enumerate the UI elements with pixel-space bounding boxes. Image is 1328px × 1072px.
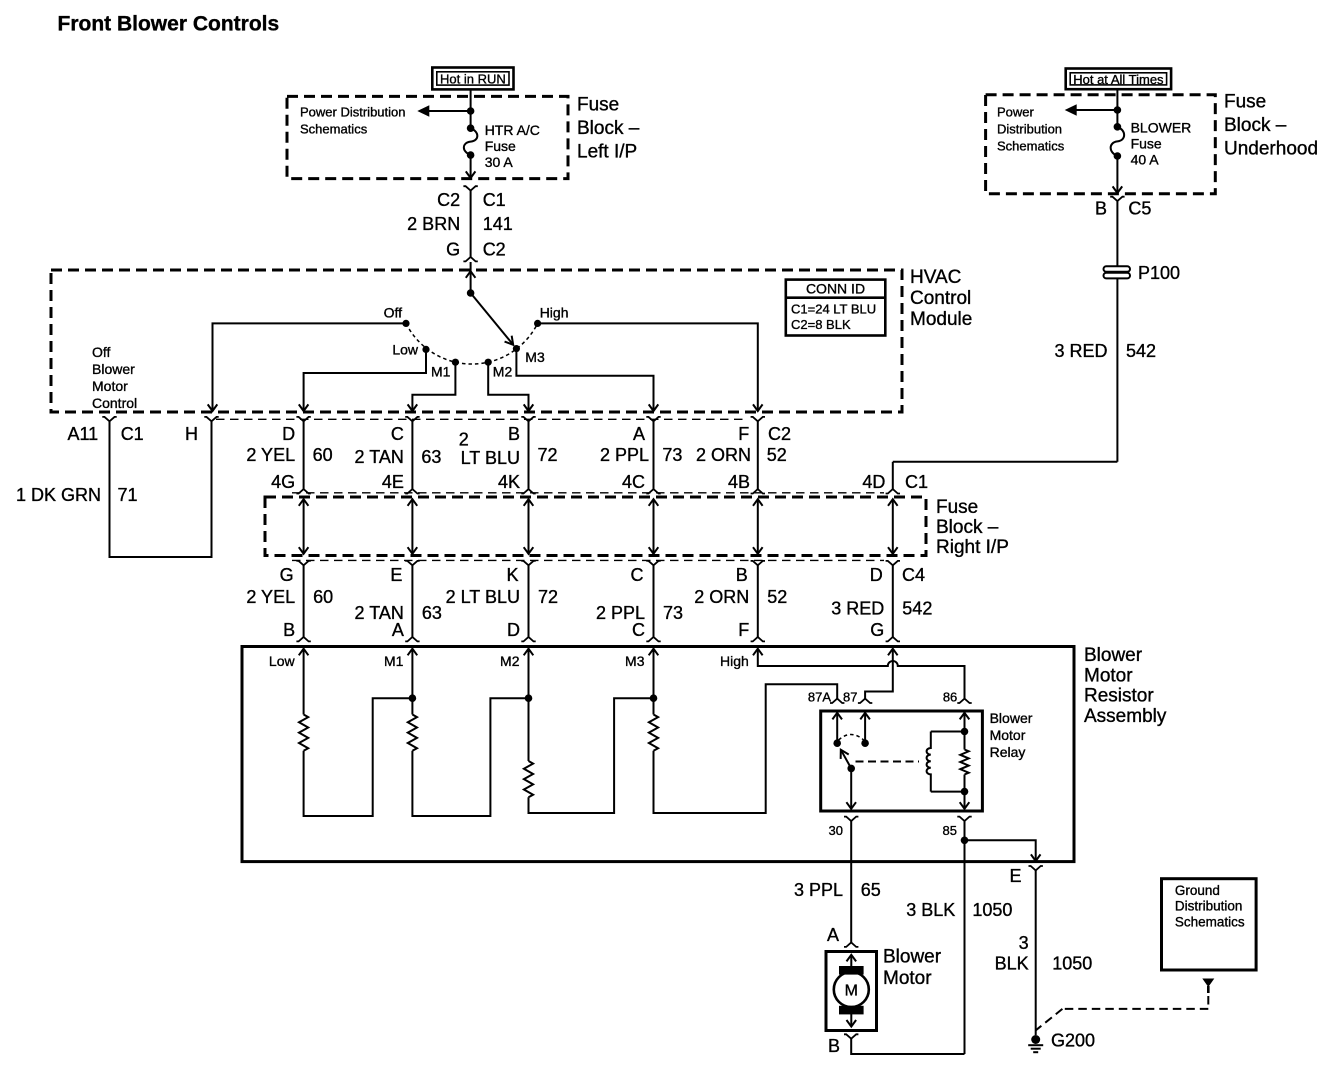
wire M1 resistor to M2 junction <box>412 698 527 816</box>
svg-text:C5: C5 <box>1128 199 1151 219</box>
pin G/C4 wire 2 YEL 60 to pin B of resistor assembly <box>246 561 333 642</box>
svg-text:C4: C4 <box>902 565 925 585</box>
wire M3 leg <box>653 649 655 715</box>
fuse block feed-through wire <box>753 499 763 554</box>
assembly pin entry arrow M1 <box>384 649 417 669</box>
relay switch blade with arrow <box>841 750 855 773</box>
wire 2 PPL 73 (A to 4C) <box>600 421 682 493</box>
assembly pin entry arrow Low <box>269 649 308 669</box>
pin B of HVAC <box>508 417 536 444</box>
node M3 junction <box>650 694 658 702</box>
svg-text:Left I/P: Left I/P <box>577 142 637 163</box>
svg-text:4D: 4D <box>862 472 885 492</box>
dashed reference wire to G200 <box>1036 996 1208 1030</box>
svg-text:C2: C2 <box>483 240 506 260</box>
fuse block feed-through wire <box>649 499 659 554</box>
arrow to Power Distribution Schematics (right) <box>1065 104 1118 115</box>
svg-text:Distribution: Distribution <box>1175 899 1243 914</box>
node: switch common <box>467 289 475 297</box>
svg-text:65: 65 <box>861 880 881 900</box>
label Fuse Block - Underhood <box>1224 92 1318 160</box>
svg-text:M2: M2 <box>493 364 513 380</box>
svg-text:Block –: Block – <box>936 517 999 538</box>
relay pin 30 <box>829 817 859 838</box>
svg-text:HVAC: HVAC <box>910 267 961 288</box>
svg-text:Low: Low <box>392 342 419 358</box>
switch position labels <box>384 305 569 380</box>
connector pin B / C5 <box>1095 197 1151 219</box>
svg-text:H: H <box>185 424 198 444</box>
svg-text:87: 87 <box>843 690 857 705</box>
node M2 junction <box>525 694 533 702</box>
ground distribution schematics box <box>1162 879 1257 970</box>
relay pin 87A <box>808 690 845 705</box>
svg-text:86: 86 <box>943 690 957 705</box>
svg-text:1050: 1050 <box>972 900 1012 920</box>
flag Hot at All Times <box>1066 69 1171 90</box>
svg-text:Hot at All Times: Hot at All Times <box>1073 72 1164 87</box>
svg-text:Relay: Relay <box>990 744 1026 760</box>
svg-text:542: 542 <box>902 599 932 619</box>
svg-text:C1: C1 <box>121 424 144 444</box>
pin C of HVAC <box>391 417 420 444</box>
svg-text:Block –: Block – <box>577 118 640 139</box>
svg-text:40 A: 40 A <box>1131 152 1160 168</box>
svg-text:F: F <box>738 620 749 640</box>
pin A of blower motor <box>827 925 858 947</box>
svg-text:Assembly: Assembly <box>1084 706 1167 727</box>
relay contact 87A arm <box>832 713 842 747</box>
label Power Distribution Schematics (right) <box>997 105 1065 154</box>
wire 3 PPL 65 relay 30 to blower motor A <box>794 821 881 943</box>
svg-text:M1: M1 <box>431 364 451 380</box>
pin D of HVAC <box>282 417 311 444</box>
switch contact arc (dashed) <box>406 323 538 364</box>
svg-text:C2=8 BLK: C2=8 BLK <box>791 317 851 332</box>
pin D/C4 wire 3 RED 542 to pin G of resistor assembly <box>831 561 932 642</box>
wire 2 TAN 63 (C to 4E) <box>355 421 442 493</box>
svg-text:2 BRN: 2 BRN <box>407 214 460 234</box>
svg-text:BLOWER: BLOWER <box>1131 120 1192 136</box>
pin K/C4 wire 2 LT BLU 72 to pin D of resistor assembly <box>446 561 558 642</box>
svg-text:63: 63 <box>421 447 441 467</box>
pin A of HVAC <box>633 417 661 444</box>
label Blower Motor <box>883 947 942 989</box>
relay pin 85 <box>943 817 972 838</box>
wire Off contact to pin H <box>208 323 406 411</box>
fuse BLOWER 40 A <box>1111 120 1192 168</box>
wire G feed to relay pin 87 <box>865 649 893 699</box>
pin E of assembly <box>1009 866 1042 886</box>
resistor M1 (assembly R2) <box>408 715 417 751</box>
wire M3 contact to pin A <box>516 349 658 411</box>
svg-text:C1=24 LT BLU: C1=24 LT BLU <box>791 302 876 317</box>
label Blower Motor Resistor Assembly <box>1084 645 1167 727</box>
svg-text:141: 141 <box>483 214 513 234</box>
label Fuse Block - Right I/P <box>936 497 1009 558</box>
svg-text:1 DK GRN: 1 DK GRN <box>16 485 101 505</box>
svg-text:B: B <box>1095 199 1107 219</box>
svg-text:A: A <box>827 925 839 945</box>
svg-text:87A: 87A <box>808 690 831 705</box>
relay contact 87 arm <box>860 713 870 747</box>
svg-text:4E: 4E <box>382 472 404 492</box>
node: junction at BLOWER fuse feed <box>1114 106 1122 114</box>
wire M3 resistor to relay pin 87A <box>654 684 838 813</box>
svg-text:C: C <box>391 424 404 444</box>
svg-text:A: A <box>392 620 404 640</box>
svg-text:3 PPL: 3 PPL <box>794 880 843 900</box>
svg-text:Control: Control <box>910 288 971 309</box>
svg-text:Off: Off <box>92 344 111 360</box>
svg-text:3 RED: 3 RED <box>1054 341 1107 361</box>
connector C1 face (thin dashed) <box>216 418 746 420</box>
svg-text:3 BLK: 3 BLK <box>906 900 955 920</box>
wire branch to assembly pin E <box>965 840 1041 861</box>
svg-text:72: 72 <box>538 587 558 607</box>
wire 1 DK GRN 71 loop A11 to H <box>16 421 212 557</box>
svg-text:D: D <box>507 620 520 640</box>
svg-text:Blower: Blower <box>883 947 942 968</box>
svg-text:E: E <box>390 565 402 585</box>
svg-text:3: 3 <box>1019 933 1029 953</box>
relay pin 87 <box>843 690 872 705</box>
svg-text:Blower: Blower <box>990 710 1033 726</box>
fuse block feed-through wire <box>408 499 418 554</box>
svg-text:85: 85 <box>943 823 957 838</box>
wire blade to relay pin 30 <box>846 768 856 808</box>
wire M2 leg <box>528 649 530 761</box>
fuse block - underhood box <box>986 95 1216 194</box>
svg-text:3 RED: 3 RED <box>831 599 884 619</box>
assembly pin entry arrow M2 <box>500 649 533 669</box>
pin C/C4 wire 2 PPL 73 to pin C of resistor assembly <box>596 561 683 642</box>
svg-text:C2: C2 <box>768 424 791 444</box>
blower motor resistor assembly box <box>242 647 1074 862</box>
relay coil L1 <box>927 732 965 792</box>
wire blower motor B to 3 BLK 1050 <box>851 1039 964 1054</box>
svg-text:4C: 4C <box>622 472 645 492</box>
svg-text:Distribution: Distribution <box>997 122 1062 137</box>
svg-text:High: High <box>540 305 569 321</box>
assembly pin entry arrow M3 <box>625 649 658 669</box>
ground G200 <box>1028 1031 1095 1053</box>
label Off Blower Motor Control <box>92 344 137 411</box>
resistor M2 (assembly R3) <box>524 761 533 797</box>
svg-text:1050: 1050 <box>1052 954 1092 974</box>
grommet P100 <box>1104 263 1181 283</box>
svg-text:D: D <box>870 565 883 585</box>
fuse block - right I/P box <box>265 497 926 556</box>
motor M1 internals: brushes, armature <box>834 955 869 1027</box>
switch contacts Off Low M1 M2 M3 High <box>402 320 541 366</box>
assembly pin entry arrow G <box>888 649 898 656</box>
svg-text:Blower: Blower <box>1084 645 1143 666</box>
wire Low leg <box>303 649 305 715</box>
title Front Blower Controls <box>58 13 280 36</box>
CONN ID table: C1=24 LT BLU, C2=8 BLK <box>786 280 886 336</box>
svg-text:G: G <box>280 565 294 585</box>
svg-text:Low: Low <box>269 653 296 669</box>
svg-text:B: B <box>508 424 520 444</box>
svg-text:30 A: 30 A <box>485 154 514 170</box>
relay pin 86 <box>943 690 972 705</box>
node: 85 wire branch to E <box>961 837 969 845</box>
fuse block feed-through wire <box>888 499 898 554</box>
wire High contact to pin F <box>538 323 763 411</box>
svg-text:M3: M3 <box>625 653 645 669</box>
svg-text:Power: Power <box>997 105 1035 120</box>
svg-text:A: A <box>633 424 645 444</box>
svg-text:2 YEL: 2 YEL <box>246 445 295 465</box>
HVAC control module box <box>51 270 902 412</box>
fuse HTR A/C 30 A <box>464 122 540 170</box>
wire M2 contact to pin B <box>488 362 533 411</box>
svg-text:4B: 4B <box>728 472 750 492</box>
svg-text:Control: Control <box>92 395 137 411</box>
svg-text:P100: P100 <box>1138 263 1180 283</box>
svg-text:HTR A/C: HTR A/C <box>485 122 540 138</box>
wire 3 BLK 1050 to ground G200 <box>995 870 1093 1035</box>
label HVAC Control Module <box>910 267 972 330</box>
svg-text:Schematics: Schematics <box>997 139 1065 154</box>
wire 2 YEL 60 (D to 4G) <box>246 421 332 493</box>
svg-text:Module: Module <box>910 309 972 330</box>
svg-text:LT BLU: LT BLU <box>461 448 520 468</box>
pin E/C4 wire 2 TAN 63 to pin A of resistor assembly <box>355 561 442 642</box>
svg-text:Ground: Ground <box>1175 883 1220 898</box>
label Blower Motor Relay <box>990 710 1033 760</box>
svg-text:4G: 4G <box>271 472 295 492</box>
label Fuse Block - Left I/P <box>577 95 640 163</box>
relay contact travel arc (dashed) <box>839 735 864 741</box>
svg-text:Motor: Motor <box>92 378 128 394</box>
svg-text:Power Distribution: Power Distribution <box>300 105 406 120</box>
svg-text:M2: M2 <box>500 653 520 669</box>
arrow to Power Distribution Schematics <box>417 105 470 116</box>
assembly pin entry arrow High <box>720 649 763 669</box>
fuse block - left I/P box <box>287 96 568 178</box>
flag Hot in RUN <box>432 68 513 90</box>
svg-text:63: 63 <box>422 603 442 623</box>
connector C2/C1 pin (fuse block to HVAC), wire 2 BRN 141 <box>407 186 513 261</box>
svg-text:Resistor: Resistor <box>1084 686 1154 707</box>
svg-text:A11: A11 <box>67 424 98 444</box>
svg-text:2: 2 <box>459 430 469 450</box>
blower motor relay box <box>821 711 983 811</box>
svg-text:G200: G200 <box>1051 1031 1095 1051</box>
svg-text:M: M <box>845 983 858 1000</box>
relay coil resistor <box>960 713 970 809</box>
wire Low resistor to M1 junction <box>304 698 411 816</box>
wire 2 LT BLU 72 (B to 4K) <box>459 421 558 493</box>
svg-text:Underhood: Underhood <box>1224 139 1318 160</box>
svg-text:2 ORN: 2 ORN <box>696 445 751 465</box>
svg-text:C1: C1 <box>905 472 928 492</box>
svg-text:B: B <box>736 565 748 585</box>
svg-text:D: D <box>282 424 295 444</box>
pin 4D / C1 labels <box>862 472 928 494</box>
svg-text:73: 73 <box>662 445 682 465</box>
resistor Low (assembly R1) <box>299 715 308 751</box>
svg-text:K: K <box>506 565 518 585</box>
svg-text:B: B <box>283 620 295 640</box>
svg-text:G: G <box>870 620 884 640</box>
svg-text:G: G <box>446 240 460 260</box>
svg-text:Fuse: Fuse <box>1131 136 1162 152</box>
pin F of HVAC <box>738 417 791 444</box>
svg-text:71: 71 <box>118 485 138 505</box>
node: junction at HTR A/C fuse feed <box>467 107 475 115</box>
wire 2 ORN 52 (F to 4B) <box>696 421 787 493</box>
svg-text:Schematics: Schematics <box>300 122 368 137</box>
fuse block feed-through wire <box>524 499 534 554</box>
svg-text:C2: C2 <box>437 190 460 210</box>
svg-text:Right I/P: Right I/P <box>936 537 1009 558</box>
svg-text:M1: M1 <box>384 653 404 669</box>
wire from Hot at All Times <box>1116 89 1118 127</box>
svg-text:30: 30 <box>829 823 843 838</box>
svg-text:Schematics: Schematics <box>1175 914 1245 929</box>
switch wiper arrow pointing to M3 <box>471 293 514 345</box>
svg-text:52: 52 <box>767 587 787 607</box>
svg-text:Front Blower Controls: Front Blower Controls <box>58 13 280 36</box>
wire power feed entering HVAC (arrow up at edge) <box>466 262 476 293</box>
wire B C5 down to P100 <box>1116 201 1118 266</box>
svg-text:Off: Off <box>384 305 403 321</box>
pin B of blower motor <box>828 1034 858 1056</box>
svg-text:4K: 4K <box>498 472 520 492</box>
svg-text:CONN ID: CONN ID <box>806 281 865 297</box>
wire 3 BLK 1050 from relay 85 <box>906 821 1012 1054</box>
svg-text:60: 60 <box>313 445 333 465</box>
svg-text:542: 542 <box>1126 341 1156 361</box>
fuse block feed-through wire <box>299 499 309 554</box>
label Power Distribution Schematics (left) <box>300 105 406 137</box>
svg-text:52: 52 <box>767 445 787 465</box>
connector faces (thin dashed) <box>292 493 884 561</box>
wire fuse output with arrow at box edge <box>1113 156 1123 193</box>
relay coil actuation link (dashed) <box>856 761 920 763</box>
svg-text:2 YEL: 2 YEL <box>246 587 295 607</box>
svg-text:M3: M3 <box>525 349 545 365</box>
wire M1 contact to pin C <box>408 362 456 411</box>
svg-text:Fuse: Fuse <box>577 95 619 116</box>
svg-text:Block –: Block – <box>1224 115 1287 136</box>
blower motor box <box>826 952 877 1031</box>
wire fuse output with arrow at box edge <box>466 155 476 178</box>
svg-text:72: 72 <box>538 445 558 465</box>
wire 3 RED 542 from P100 to fuse block right I/P pin 4D <box>893 278 1156 489</box>
svg-text:Hot in RUN: Hot in RUN <box>440 72 506 87</box>
svg-text:Fuse: Fuse <box>485 138 516 154</box>
svg-text:Fuse: Fuse <box>936 497 978 518</box>
node M1 junction <box>409 694 417 702</box>
svg-text:2 TAN: 2 TAN <box>355 447 404 467</box>
svg-text:2 ORN: 2 ORN <box>694 587 749 607</box>
wire Low contact to pin D <box>299 349 426 411</box>
svg-text:Motor: Motor <box>990 727 1026 743</box>
svg-text:E: E <box>1009 866 1021 886</box>
wire M2 resistor to M3 junction <box>529 698 653 813</box>
wire M1 leg <box>411 649 413 715</box>
svg-text:C: C <box>631 565 644 585</box>
svg-text:C1: C1 <box>483 190 506 210</box>
svg-text:73: 73 <box>663 603 683 623</box>
svg-text:F: F <box>738 424 749 444</box>
svg-text:Motor: Motor <box>1084 665 1133 686</box>
pin A11 / C1 of HVAC <box>67 417 143 444</box>
svg-text:BLK: BLK <box>995 954 1029 974</box>
svg-text:Motor: Motor <box>883 968 932 989</box>
svg-text:2 LT BLU: 2 LT BLU <box>446 587 520 607</box>
resistor M3 (assembly R4) <box>649 715 658 751</box>
svg-text:60: 60 <box>313 587 333 607</box>
svg-text:B: B <box>828 1036 840 1056</box>
svg-text:2 PPL: 2 PPL <box>600 445 649 465</box>
svg-text:C: C <box>632 620 645 640</box>
wire High to relay pin 86 (hop over G wire) <box>758 649 965 699</box>
wire from Hot in RUN into fuse block <box>470 89 472 128</box>
pin B/C4 wire 2 ORN 52 to pin F of resistor assembly <box>694 561 787 642</box>
svg-text:Fuse: Fuse <box>1224 92 1266 113</box>
ground distribution reference arrow <box>1202 979 1214 994</box>
pin H of HVAC <box>185 417 219 444</box>
svg-text:Blower: Blower <box>92 361 135 377</box>
svg-text:High: High <box>720 653 749 669</box>
